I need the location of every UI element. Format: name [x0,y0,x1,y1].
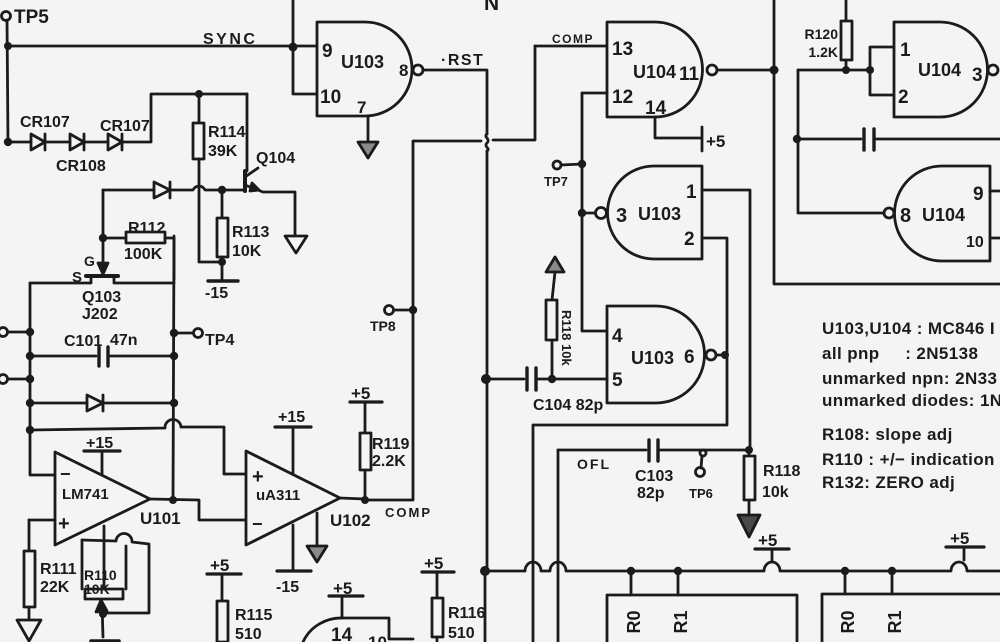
svg-text:R1: R1 [885,610,905,633]
svg-text:R1: R1 [671,610,691,633]
svg-text:5: 5 [612,370,623,391]
svg-text:10: 10 [368,633,387,642]
svg-text:TP7: TP7 [544,174,568,189]
svg-text:CR107: CR107 [100,118,150,135]
svg-text:+15: +15 [86,435,113,452]
svg-text:R111: R111 [40,561,77,578]
svg-text:TP6: TP6 [689,486,713,501]
svg-text:U103: U103 [341,52,384,72]
svg-text:R119: R119 [372,436,409,453]
svg-text:CR108: CR108 [56,158,106,175]
svg-text:8: 8 [399,61,408,80]
svg-text:2: 2 [684,229,695,250]
svg-text:Q104: Q104 [256,150,295,167]
svg-text:9: 9 [973,184,984,205]
svg-text:+: + [252,466,264,488]
svg-text:TP8: TP8 [370,318,396,334]
svg-text:C103: C103 [635,468,673,485]
svg-text:14: 14 [331,625,353,642]
svg-text:7: 7 [357,98,366,117]
svg-text:CR107: CR107 [20,114,70,131]
svg-text:G: G [84,253,95,269]
svg-text:U103: U103 [631,348,674,368]
svg-text:J202: J202 [82,306,118,323]
svg-text:510: 510 [235,626,262,642]
svg-text:+5: +5 [950,529,969,548]
svg-text:-15: -15 [205,285,228,302]
svg-text:R112: R112 [128,220,165,237]
svg-text:13: 13 [612,39,633,60]
svg-text:U103,U104 : MC846 I: U103,U104 : MC846 I [822,319,995,338]
svg-text:−: − [252,514,263,534]
svg-text:U103: U103 [638,204,681,224]
svg-text:1.2K: 1.2K [808,44,838,60]
svg-text:2: 2 [898,87,909,108]
svg-text:U101: U101 [140,509,181,528]
svg-text:SYNC: SYNC [203,31,257,48]
svg-text:C104 82p: C104 82p [533,397,603,414]
svg-text:10K: 10K [84,581,110,597]
svg-text:10: 10 [320,87,341,108]
svg-text:OFL: OFL [577,456,611,472]
svg-text:unmarked diodes: 1N: unmarked diodes: 1N [822,391,1000,410]
svg-text:9: 9 [322,41,333,62]
svg-text:R0: R0 [838,610,858,633]
svg-text:100K: 100K [124,246,163,263]
svg-text:14: 14 [645,98,667,119]
svg-text:47n: 47n [110,332,138,349]
svg-text:U102: U102 [330,511,371,530]
svg-text:1: 1 [686,182,697,203]
svg-text:+5: +5 [351,384,370,403]
svg-text:+: + [58,513,70,535]
svg-text:+5: +5 [758,531,777,550]
svg-text:R118: R118 [763,463,800,480]
svg-text:-15: -15 [276,579,299,596]
svg-text:uA311: uA311 [256,487,300,504]
svg-text:3: 3 [972,65,983,86]
svg-text:all pnp : 2N5138: all pnp : 2N5138 [822,344,978,363]
svg-text:10K: 10K [232,243,262,260]
svg-text:+5: +5 [706,132,725,151]
svg-text:C101: C101 [64,333,102,350]
svg-text:R115: R115 [235,607,272,624]
svg-text:R120: R120 [805,26,839,42]
svg-text:R108: slope adj: R108: slope adj [822,425,953,444]
svg-text:+5: +5 [333,579,352,598]
svg-text:COMP: COMP [385,505,432,520]
svg-text:R118 10k: R118 10k [559,310,574,366]
svg-text:unmarked npn: 2N33: unmarked npn: 2N33 [822,369,997,388]
svg-text:3: 3 [616,205,627,227]
svg-text:+5: +5 [424,554,443,573]
svg-text:−: − [60,464,71,484]
svg-text:S: S [72,269,82,286]
svg-text:10: 10 [966,234,984,251]
svg-text:U104: U104 [922,205,965,225]
svg-text:6: 6 [684,347,695,368]
svg-text:COMP: COMP [552,32,594,46]
svg-text:R132: ZERO adj: R132: ZERO adj [822,473,955,492]
svg-text:N: N [484,0,499,15]
svg-text:2.2K: 2.2K [372,453,406,470]
svg-text:12: 12 [612,87,633,108]
svg-text:+5: +5 [210,556,229,575]
svg-text:10k: 10k [762,484,789,501]
svg-text:+15: +15 [278,409,305,426]
svg-text:22K: 22K [40,579,70,596]
svg-text:U104: U104 [918,60,961,80]
svg-text:1: 1 [900,40,911,61]
svg-text:TP5: TP5 [14,7,49,28]
svg-text:4: 4 [612,326,623,347]
svg-text:510: 510 [448,625,475,642]
svg-text:R110 : +/− indication a: R110 : +/− indication a [822,450,1000,469]
svg-text:R114: R114 [208,124,245,141]
svg-text:LM741: LM741 [62,486,109,503]
svg-text:8: 8 [900,205,911,227]
svg-text:R0: R0 [624,610,644,633]
svg-text:TP4: TP4 [205,332,234,349]
svg-text:U104: U104 [633,62,676,82]
svg-text:39K: 39K [208,143,238,160]
svg-text:·RST: ·RST [441,52,484,69]
svg-text:11: 11 [679,64,700,85]
svg-text:Q103: Q103 [82,289,121,306]
svg-text:R116: R116 [448,605,485,622]
svg-text:R113: R113 [232,224,269,241]
svg-text:82p: 82p [637,485,665,502]
